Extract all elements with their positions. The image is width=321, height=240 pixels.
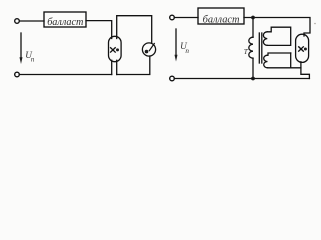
wire input to ballast bbox=[175, 17, 199, 19]
bottom rail left bbox=[20, 74, 112, 76]
lamp EL2 (capsule) bbox=[296, 34, 309, 62]
transformer T primary winding bbox=[249, 37, 253, 58]
transformer secondary winding bottom + loop bbox=[268, 53, 291, 55]
ballast box (left) bbox=[44, 12, 86, 27]
transformer core line 1 bbox=[258, 33, 260, 63]
svg-text:балласт: балласт bbox=[203, 14, 240, 25]
scan speck bbox=[314, 23, 316, 25]
Un arrow (right) bbox=[175, 29, 177, 57]
wire bridge lamp pin2 to starter top bbox=[117, 16, 152, 44]
ballast box (right) bbox=[198, 8, 244, 24]
top rail to lamp top pin (stepped) bbox=[244, 18, 310, 37]
Un arrow (left) bbox=[20, 33, 22, 59]
junction node bbox=[251, 16, 255, 20]
svg-text:балласт: балласт bbox=[47, 17, 83, 28]
lamp EL2 x-mark bbox=[299, 47, 304, 51]
terminal (bottom right input) bbox=[170, 76, 175, 81]
lamp EL1 bottom pin 1 bbox=[111, 60, 113, 74]
wire lamp pin2 to starter bottom bbox=[117, 56, 150, 75]
transformer core line 2 bbox=[261, 33, 263, 63]
lamp EL1 bottom pin 2 bbox=[116, 60, 118, 74]
starter electrode diagonal bbox=[149, 44, 154, 51]
bottom rail right bbox=[175, 78, 310, 80]
lamp EL1 x-mark bbox=[111, 48, 116, 52]
transformer secondary winding top + loop bbox=[267, 27, 290, 45]
terminal (top left input) bbox=[15, 19, 20, 24]
wire ballast to lamp pin, corner down bbox=[86, 21, 112, 39]
terminal (bottom left input) bbox=[15, 72, 20, 77]
lamp EL1 dot electrode bbox=[116, 48, 119, 51]
wire top input to ballast bbox=[20, 20, 45, 22]
terminal (top right input) bbox=[170, 15, 175, 20]
wire primary to bottom rail bbox=[252, 58, 254, 78]
wire to primary bbox=[252, 18, 254, 38]
starter SB (glow starter circle) bbox=[142, 43, 155, 56]
lamp EL2 dot electrode bbox=[304, 48, 307, 51]
lamp EL2 bottom pin to rail (stepped) bbox=[301, 62, 310, 79]
starter dot electrode bbox=[145, 50, 149, 54]
lamp EL1 (capsule) bbox=[109, 36, 122, 61]
junction node bottom bbox=[251, 77, 255, 81]
